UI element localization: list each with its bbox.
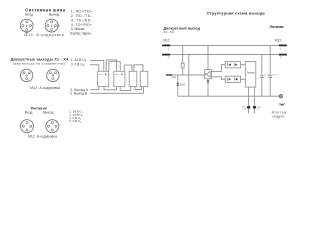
svg-text:2: 2 [53, 122, 54, 124]
connector J5 (M12 A-coded power in) [21, 120, 34, 133]
pin 1 left (24V) [162, 45, 170, 51]
label pin2 output B [70, 91, 87, 95]
optocoupler U3 [225, 76, 240, 82]
svg-text:M12, А-кодировка: M12, А-кодировка [30, 86, 60, 90]
wire bottom bridge load2-load3 [120, 87, 131, 91]
diode D2 driver to 0V [207, 79, 210, 96]
svg-text:2: 2 [29, 27, 30, 29]
connector J3 (M12 A-coded) [20, 69, 32, 81]
connector J4 (M12 A-coded) [47, 69, 59, 81]
svg-text:Выход: Выход [49, 12, 59, 16]
load L2 [114, 71, 125, 86]
wire output A from load1 [90, 87, 99, 90]
svg-text:4: 4 [47, 24, 48, 26]
label pin3 0V [71, 62, 85, 67]
label M12 right [275, 38, 281, 42]
svg-text:1: 1 [48, 124, 49, 126]
svg-text:M12, А-кодировка: M12, А-кодировка [28, 135, 57, 139]
wire 0V to load1 [90, 65, 99, 72]
wire opto1 to logic [241, 64, 246, 66]
svg-text:M12: M12 [163, 39, 169, 43]
label pin4 output A [70, 88, 88, 92]
svg-text:3. 0 В UA: 3. 0 В UA [71, 62, 85, 67]
svg-text:2: 2 [30, 73, 31, 75]
label Выход [49, 12, 59, 16]
wire 0V drop [188, 55, 190, 97]
svg-text:Структурная схема выхода: Структурная схема выхода [207, 10, 266, 15]
svg-text:10 нФ: 10 нФ [272, 74, 278, 77]
label M12 A-coding [28, 135, 57, 139]
subheading two outputs per connector [13, 61, 65, 65]
svg-text:Вход: Вход [25, 12, 33, 16]
wire 24V bus [162, 44, 287, 46]
svg-text:M12: M12 [275, 38, 281, 42]
wire 24V to load1 [90, 60, 104, 71]
zener diode D1 [177, 75, 186, 96]
svg-text:Питание: Питание [270, 25, 284, 29]
label module mounting [272, 110, 288, 118]
wire FE line [178, 95, 279, 97]
svg-text:3: 3 [55, 128, 56, 130]
svg-text:3: 3 [30, 128, 31, 130]
svg-text:1: 1 [23, 124, 24, 126]
svg-text:4: 4 [28, 80, 29, 82]
label 4(1) output pin [171, 75, 176, 79]
svg-text:3: 3 [280, 57, 282, 59]
wire logic to bus pin A [248, 87, 250, 113]
wire driver supply [207, 45, 209, 69]
svg-text:4(1): 4(1) [171, 75, 176, 79]
label M12 D-coding [24, 33, 63, 37]
terminal FE [279, 94, 283, 98]
op-amp U1 driver [205, 70, 212, 79]
wire output line [166, 74, 205, 76]
label Выход [43, 110, 53, 114]
label Вход [25, 12, 33, 16]
label pin1 24V [71, 58, 87, 63]
pin list system bus [70, 10, 92, 36]
svg-text:3. TD-/RD-: 3. TD-/RD- [71, 18, 92, 22]
svg-text:Корпус Экран: Корпус Экран [70, 31, 91, 35]
svg-text:36 В: 36 В [180, 84, 185, 87]
pin 1 right (24V) [279, 45, 287, 51]
wire bridge load1-load2 lower [109, 62, 120, 72]
pin list power [69, 110, 83, 124]
svg-text:3: 3 [49, 30, 50, 32]
capacitor C1 (0V to FE) [260, 55, 270, 97]
wire bottom bridge load1-load2 [104, 87, 117, 90]
heading Дискретные выходы X1 - X4 [11, 58, 69, 62]
svg-text:2-2: 2-2 [257, 109, 261, 111]
wire 0V bus [162, 54, 287, 56]
optocoupler U2 [225, 62, 240, 68]
load L4 [140, 71, 148, 86]
wire bridge load3-load4 [134, 65, 143, 72]
connector J2 (M12 D-coded, output) [45, 19, 59, 32]
wire output B long [90, 87, 143, 94]
pin 4 left (output) [166, 74, 172, 76]
pin module bus A [242, 106, 250, 111]
wire logic to bus pin B [253, 87, 255, 113]
pin module bus B [253, 106, 263, 111]
svg-text:2: 2 [54, 27, 55, 29]
svg-text:4: 4 [22, 24, 23, 26]
load L1 [98, 71, 109, 86]
label M12 left [163, 39, 169, 43]
pin 3 left (0V) [162, 54, 170, 60]
wire bridge load1-load2 [106, 60, 116, 71]
heading Дискретный выход [163, 26, 200, 30]
wire bottom bridge load3-load4 [135, 87, 142, 90]
svg-text:M12, D-кодировка: M12, D-кодировка [24, 33, 63, 37]
wire driver to opto1 [211, 65, 225, 72]
logic box U4 [245, 62, 256, 88]
svg-text:1: 1 [28, 22, 29, 24]
svg-text:1: 1 [22, 73, 23, 75]
connector J6 (M12 A-coded power out) [46, 120, 59, 133]
svg-text:3: 3 [168, 58, 170, 60]
resistor R1 [181, 45, 184, 75]
svg-text:1: 1 [280, 48, 282, 50]
svg-text:4: 4 [25, 131, 26, 133]
svg-text:2: 2 [28, 122, 29, 124]
label X1 - X4 [163, 30, 174, 34]
label M12 A-coding [30, 86, 60, 90]
svg-text:2. Выход B: 2. Выход B [70, 91, 87, 95]
svg-text:Логика: Логика [247, 71, 255, 75]
svg-text:1. RD+/TD+: 1. RD+/TD+ [71, 10, 92, 14]
svg-text:1: 1 [53, 22, 54, 24]
heading Системная шина [25, 7, 66, 12]
wire driver to opto2 [211, 77, 225, 80]
svg-text:[два выхода на соединитель]: [два выхода на соединитель] [13, 61, 65, 65]
heading Питание (right) [270, 25, 284, 29]
heading Структурная схема выхода [207, 10, 266, 15]
wire bridge load2-load3 [124, 65, 132, 71]
chassis ground [279, 103, 285, 106]
svg-text:модуля: модуля [273, 115, 285, 119]
svg-text:1: 1 [168, 48, 170, 50]
connector J1 (M12 D-coded, input) [20, 19, 33, 33]
svg-text:Вход: Вход [25, 110, 33, 114]
svg-text:4: 4 [54, 80, 55, 82]
wire opto2 to logic [241, 78, 246, 80]
svg-text:2: 2 [56, 73, 57, 75]
heading Питание [31, 107, 47, 111]
pin 3 right (0V) [279, 54, 287, 60]
svg-text:Выход: Выход [43, 110, 53, 114]
svg-text:3: 3 [24, 30, 25, 32]
load L3 [129, 71, 137, 86]
label Вход [25, 110, 33, 114]
svg-text:X1 - X4: X1 - X4 [163, 30, 174, 34]
capacitor C2 (24V to FE) [268, 45, 277, 96]
svg-text:1: 1 [48, 73, 49, 75]
svg-text:4: 4 [50, 131, 51, 133]
svg-text:2-1: 2-1 [243, 109, 247, 111]
